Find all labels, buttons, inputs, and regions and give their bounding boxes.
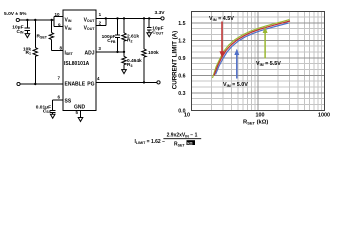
resistor R4 100k zigzag — [142, 49, 146, 57]
svg-text:CFB: CFB — [107, 38, 116, 44]
wire pin 2 stub — [96, 25, 106, 27]
resistor R2 leads — [123, 18, 125, 32]
resistor RSET zigzag — [49, 33, 53, 40]
wire pin 10 stub — [54, 16, 63, 18]
terminal input — [16, 18, 19, 21]
wire PG line — [96, 81, 157, 83]
ground GND pin — [78, 118, 83, 122]
resistor R3 zigzag — [122, 56, 126, 64]
svg-text:CURRENT LIMIT (A): CURRENT LIMIT (A) — [172, 31, 179, 89]
svg-text:RSET (kΩ): RSET (kΩ) — [243, 120, 268, 126]
chart y-axis tick labels — [178, 21, 185, 114]
arrow red down — [221, 22, 223, 52]
chart x-axis tick labels — [184, 113, 330, 119]
svg-text:VOUT: VOUT — [84, 17, 96, 23]
arrow green up — [264, 33, 266, 59]
svg-text:2.9x2xVIN − 1: 2.9x2xVIN − 1 — [167, 133, 198, 139]
svg-text:R2: R2 — [127, 38, 132, 44]
svg-text:VIN = 4.5V: VIN = 4.5V — [209, 16, 234, 22]
curve VIN=4.5V (red) — [214, 21, 290, 76]
capacitor CSS plates — [50, 109, 55, 111]
resistor RSET leads — [50, 20, 52, 33]
svg-text:1000: 1000 — [318, 113, 330, 119]
svg-text:VIN = 5.5V: VIN = 5.5V — [256, 61, 281, 67]
junction dots — [26, 17, 150, 85]
svg-text:10: 10 — [54, 12, 60, 17]
terminal enable — [17, 82, 20, 85]
wire SS stub — [53, 99, 63, 101]
wire pin 1 / output rail — [96, 17, 161, 19]
ground CIN — [25, 34, 30, 38]
wire pin10/pin9 riser — [53, 17, 55, 27]
wire pin 8 stub — [51, 49, 63, 51]
terminal output 3.3V — [161, 17, 164, 20]
svg-text:0.3: 0.3 — [178, 91, 185, 97]
curve VIN=5.5V (green) — [213, 20, 290, 78]
IC U1 ISL80101A body — [63, 10, 96, 110]
svg-text:5.0V ± 5%: 5.0V ± 5% — [4, 11, 27, 17]
wire input rail — [20, 19, 55, 21]
svg-text:0.6: 0.6 — [178, 73, 185, 79]
formula I_LIMIT — [135, 133, 202, 148]
svg-text:RSET: RSET — [37, 34, 48, 40]
resistor R1 leads — [34, 20, 36, 48]
ground R3 — [122, 70, 127, 74]
svg-text:PG: PG — [87, 81, 94, 87]
capacitor CFB plates — [115, 34, 120, 36]
resistor R4 100k leads — [143, 18, 145, 48]
svg-text:VIN: VIN — [65, 17, 72, 23]
capacitor CFB leads — [117, 18, 119, 34]
svg-text:R3: R3 — [127, 62, 132, 68]
svg-text:ISET: ISET — [65, 50, 74, 56]
svg-text:100k: 100k — [148, 50, 159, 56]
svg-text:0.9: 0.9 — [178, 56, 185, 62]
svg-text:VOUT: VOUT — [84, 25, 96, 31]
wire pin 9 stub — [54, 26, 63, 28]
wire GND stub — [80, 111, 82, 118]
svg-text:CIN: CIN — [16, 29, 23, 35]
curve VIN=5.0V (blue) — [216, 23, 289, 75]
svg-text:SS: SS — [65, 99, 72, 105]
svg-text:GND: GND — [74, 104, 86, 110]
terminal PG — [157, 81, 160, 84]
chart grid — [192, 11, 325, 110]
capacitor CIN leads — [26, 20, 28, 28]
svg-text:kΩ: kΩ — [187, 140, 193, 145]
resistor R3 leads — [123, 52, 125, 56]
svg-text:ENABLE: ENABLE — [65, 81, 86, 87]
capacitor CIN plates — [25, 27, 30, 29]
arrow blue up — [236, 55, 238, 79]
resistor R1 zigzag — [33, 48, 37, 57]
svg-text:VIN = 5.0V: VIN = 5.0V — [223, 82, 248, 88]
capacitor CSS leads — [52, 100, 54, 110]
capacitor COUT plates — [147, 27, 151, 29]
ground COUT — [147, 33, 152, 37]
wire ADJ line — [96, 51, 124, 53]
svg-text:COUT: COUT — [152, 30, 164, 36]
wire enable line — [20, 83, 63, 85]
pin numbers — [54, 12, 101, 115]
resistor R2 zigzag — [122, 33, 126, 41]
IC pin names — [64, 17, 95, 110]
svg-text:3.3V: 3.3V — [155, 10, 166, 16]
svg-text:ISL80101A: ISL80101A — [64, 61, 90, 67]
capacitor COUT leads — [148, 18, 150, 27]
svg-text:CSS: CSS — [43, 108, 52, 114]
svg-text:ADJ: ADJ — [84, 50, 94, 56]
svg-text:R1: R1 — [26, 50, 31, 56]
svg-text:VIN: VIN — [65, 25, 72, 31]
svg-text:10: 10 — [184, 113, 190, 119]
svg-text:1.2: 1.2 — [178, 38, 185, 44]
svg-text:100: 100 — [256, 113, 265, 119]
ground CSS — [50, 114, 55, 118]
svg-text:1.5: 1.5 — [178, 21, 185, 27]
